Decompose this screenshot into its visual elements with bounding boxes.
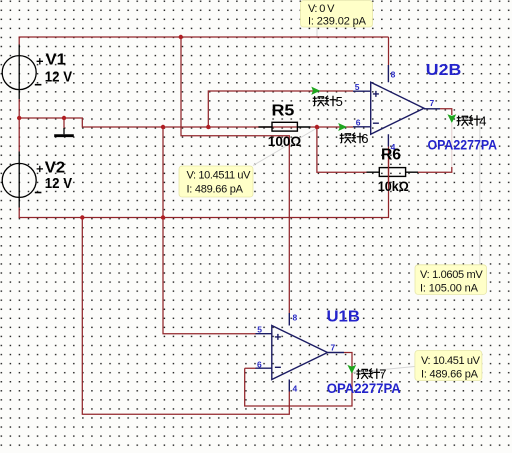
svg-text:4: 4 [479, 114, 486, 129]
svg-text:I: 489.66 pA: I: 489.66 pA [421, 368, 479, 380]
svg-text:U1B: U1B [327, 308, 360, 325]
svg-text:7: 7 [379, 367, 386, 382]
svg-text:5: 5 [355, 82, 360, 92]
svg-text:5: 5 [257, 324, 262, 334]
svg-text:12 V: 12 V [45, 69, 72, 86]
svg-text:I: 489.66 pA: I: 489.66 pA [187, 183, 244, 195]
svg-text:V: 0 V: V: 0 V [308, 3, 335, 15]
svg-text:5: 5 [336, 94, 343, 109]
svg-text:8: 8 [293, 313, 298, 323]
svg-text:R6: R6 [381, 147, 401, 164]
svg-text:OPA2277PA: OPA2277PA [327, 380, 401, 396]
svg-text:6: 6 [356, 118, 361, 128]
svg-text:12 V: 12 V [45, 175, 72, 192]
svg-text:R5: R5 [272, 102, 295, 119]
svg-text:6: 6 [257, 359, 262, 369]
svg-text:U2B: U2B [426, 62, 462, 79]
svg-text:7: 7 [331, 342, 336, 352]
svg-text:100Ω: 100Ω [268, 133, 302, 149]
svg-text:I: 105.00 nA: I: 105.00 nA [420, 282, 479, 294]
svg-text:V: 10.4511 uV: V: 10.4511 uV [187, 170, 252, 182]
svg-text:10kΩ: 10kΩ [378, 178, 409, 194]
svg-text:8: 8 [391, 69, 396, 79]
svg-text:I: 239.02 pA: I: 239.02 pA [308, 15, 367, 27]
svg-text:4: 4 [293, 383, 298, 393]
svg-text:7: 7 [430, 98, 435, 108]
svg-text:V: 10.451 uV: V: 10.451 uV [421, 355, 481, 367]
svg-text:OPA2277PA: OPA2277PA [428, 136, 498, 152]
svg-text:V: 1.0605 mV: V: 1.0605 mV [420, 269, 483, 281]
svg-text:V1: V1 [46, 51, 66, 68]
svg-text:V2: V2 [45, 159, 65, 176]
svg-text:6: 6 [361, 131, 368, 146]
